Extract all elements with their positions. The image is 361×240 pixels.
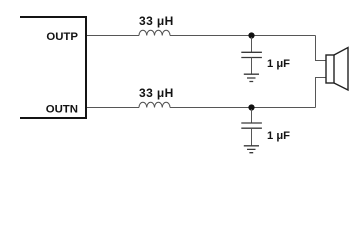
svg-text:1 μF: 1 μF bbox=[267, 58, 290, 70]
wire C2 to ground bbox=[251, 128, 253, 146]
inductor L1 bbox=[139, 30, 170, 35]
wire top right corner to speaker bbox=[316, 36, 327, 61]
svg-text:33 μH: 33 μH bbox=[139, 14, 174, 28]
wire node B down to C2 bbox=[251, 109, 253, 123]
inductor L2 bbox=[139, 102, 170, 107]
value label 33 uH (L2) bbox=[139, 86, 174, 100]
wire C1 to ground bbox=[251, 58, 253, 75]
svg-text:33 μH: 33 μH bbox=[139, 86, 174, 100]
speaker LS1 horn bbox=[334, 48, 348, 91]
speaker LS1 driver box bbox=[326, 55, 334, 83]
wire L1 to node A bbox=[170, 35, 316, 37]
IC U1 (partial box, open on left) bbox=[20, 17, 86, 118]
value label 1 uF (C2) bbox=[267, 130, 290, 142]
wire L2 to node B bbox=[170, 107, 316, 109]
node A (junction dot) bbox=[248, 32, 254, 38]
ground (C1) bbox=[244, 74, 259, 81]
node B (junction dot) bbox=[248, 104, 254, 110]
wire bottom right corner to speaker bbox=[316, 78, 327, 108]
capacitor C1 bbox=[241, 52, 262, 57]
wire OUTN to L2 bbox=[87, 107, 139, 109]
pin OUTP bbox=[46, 31, 78, 43]
svg-text:OUTP: OUTP bbox=[46, 31, 78, 43]
svg-text:1 μF: 1 μF bbox=[267, 130, 290, 142]
value label 1 uF (C1) bbox=[267, 58, 290, 70]
svg-text:OUTN: OUTN bbox=[46, 104, 78, 116]
wire OUTP to L1 bbox=[87, 35, 139, 37]
pin OUTN bbox=[46, 104, 78, 116]
ground (C2) bbox=[244, 146, 259, 153]
capacitor C2 bbox=[241, 123, 262, 128]
value label 33 uH (L1) bbox=[139, 14, 174, 28]
wire node A down to C1 bbox=[251, 37, 253, 52]
